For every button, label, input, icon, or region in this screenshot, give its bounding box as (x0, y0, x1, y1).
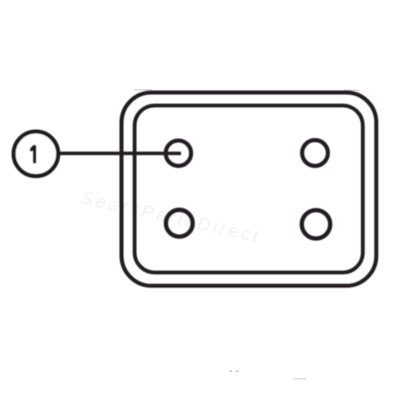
hole top-right (302, 140, 328, 166)
callout balloon 1 (14, 132, 59, 177)
hole bottom-left (166, 210, 193, 237)
hole bottom-right (302, 210, 330, 238)
watermark artifact dots (230, 370, 240, 372)
svg-text:SearsPartsDirect: SearsPartsDirect (79, 187, 263, 246)
watermark artifact dash (293, 378, 306, 380)
callout label 1 (digit drawn as path, Arial-style no foot serif) (30, 145, 36, 163)
plate outer outline (122, 93, 377, 286)
leader line (56, 152, 181, 156)
hole top-left (166, 141, 191, 166)
plate inner outline (135, 106, 363, 273)
ghost artifact line top-right (344, 90, 359, 91)
watermark text (79, 187, 263, 246)
ghost artifact line top-left (134, 89, 152, 90)
